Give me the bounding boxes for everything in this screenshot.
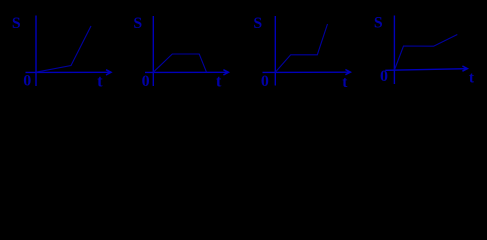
svg-text:t: t bbox=[469, 70, 475, 87]
curve g3: rise, plateau, steep rise bbox=[275, 24, 327, 72]
curve g1: shallow then steep bbox=[36, 26, 91, 72]
svg-text:S: S bbox=[12, 15, 21, 32]
svg-text:t: t bbox=[342, 74, 348, 91]
arrowhead g1 bbox=[106, 70, 111, 75]
svg-text:S: S bbox=[374, 15, 383, 32]
graph 2 bbox=[145, 16, 228, 86]
horizontal t axis g1 bbox=[26, 71, 111, 73]
svg-text:0: 0 bbox=[261, 73, 269, 90]
curve g2: trapezoid bbox=[153, 54, 206, 72]
svg-text:S: S bbox=[133, 15, 142, 32]
arrowhead g4 bbox=[462, 66, 467, 71]
graph 3 bbox=[263, 16, 351, 86]
vertical S axis g3 bbox=[274, 16, 276, 86]
vertical S axis g4 bbox=[393, 16, 395, 85]
horizontal t axis g4 (slightly tilted) bbox=[385, 69, 466, 71]
arrowhead g3 bbox=[345, 70, 350, 75]
svg-text:0: 0 bbox=[23, 73, 31, 90]
graph 4 bbox=[385, 16, 467, 85]
svg-text:t: t bbox=[216, 72, 222, 91]
vertical S axis g1 bbox=[35, 16, 37, 87]
graph 1 bbox=[26, 16, 112, 87]
arrowhead g2 bbox=[223, 70, 228, 75]
horizontal t axis g2 bbox=[145, 71, 228, 73]
horizontal t axis g3 bbox=[263, 71, 350, 73]
svg-text:S: S bbox=[253, 15, 262, 32]
vertical S axis g2 bbox=[152, 16, 154, 86]
curve g4: steep rise, near-flat, moderate rise bbox=[394, 35, 457, 71]
svg-text:0: 0 bbox=[380, 68, 388, 85]
svg-text:t: t bbox=[97, 72, 103, 91]
svg-text:0: 0 bbox=[142, 73, 150, 90]
